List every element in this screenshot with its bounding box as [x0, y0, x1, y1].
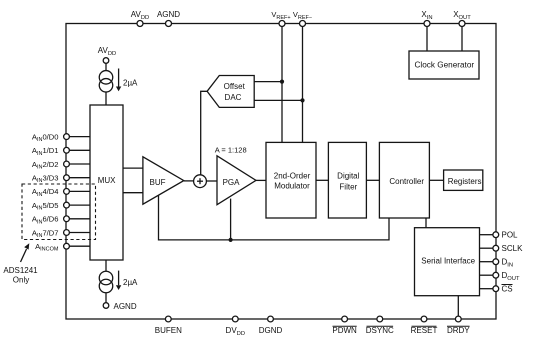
pin AIN3/D3 — [32, 174, 90, 185]
svg-text:AIN6/D6: AIN6/D6 — [32, 215, 59, 226]
pin PDWN (active low) — [332, 316, 357, 335]
wire modulator to digital filter — [316, 179, 328, 181]
wire PGA to modulator — [256, 179, 266, 181]
svg-text:Digital: Digital — [337, 171, 359, 180]
2nd-order modulator block — [266, 142, 316, 218]
svg-text:Serial Interface: Serial Interface — [421, 256, 475, 265]
pin AVDD top — [131, 10, 149, 27]
svg-text:AIN3/D3: AIN3/D3 — [32, 174, 59, 185]
wire MUX to BUF (lower) — [123, 192, 143, 194]
svg-text:AIN5/D5: AIN5/D5 — [32, 201, 59, 212]
pin AIN7/D7 — [32, 228, 90, 239]
svg-text:2nd-Order: 2nd-Order — [274, 171, 311, 180]
current source I1 2uA (top) — [99, 69, 138, 106]
wire BUF to summing junction — [184, 180, 194, 182]
wire X_IN to clock generator — [426, 27, 428, 52]
control branch to PGA — [230, 199, 232, 240]
svg-text:AGND: AGND — [157, 10, 180, 19]
pin RESET (active low) — [411, 316, 438, 335]
pin POL — [480, 231, 519, 240]
svg-text:ADS1241: ADS1241 — [3, 266, 38, 275]
svg-text:Offset: Offset — [224, 82, 246, 91]
current source I2 2uA (bottom) — [99, 260, 138, 303]
svg-text:DVDD: DVDD — [226, 326, 246, 337]
junction dot VREF+ / DAC — [280, 80, 284, 84]
svg-text:Registers: Registers — [448, 177, 482, 186]
svg-text:DAC: DAC — [225, 93, 242, 102]
offset DAC block — [207, 76, 254, 108]
pin DSYNC (active low) — [366, 316, 394, 335]
wire offset DAC output to summing junction — [201, 91, 207, 175]
svg-text:Clock Generator: Clock Generator — [414, 60, 474, 69]
svg-text:AIN1/D1: AIN1/D1 — [32, 146, 59, 157]
wire controller to serial interface — [425, 218, 427, 228]
wire MUX to BUF (upper) — [123, 167, 143, 169]
pin X_OUT — [453, 10, 471, 27]
svg-text:2µA: 2µA — [123, 79, 138, 88]
clock generator block — [409, 51, 479, 79]
svg-text:BUF: BUF — [150, 178, 166, 187]
registers block — [444, 170, 483, 190]
wire controller to registers — [429, 179, 443, 181]
svg-text:PDWN: PDWN — [332, 326, 357, 335]
pin AIN0/D0 — [32, 132, 90, 143]
svg-text:AIN0/D0: AIN0/D0 — [32, 132, 59, 143]
svg-text:A = 1:128: A = 1:128 — [215, 146, 247, 155]
pin X_IN — [421, 10, 432, 27]
wire summing junction to PGA — [206, 180, 217, 182]
svg-text:DRDY: DRDY — [447, 326, 470, 335]
junction dot control/PGA — [229, 238, 233, 242]
svg-text:AIN2/D2: AIN2/D2 — [32, 160, 59, 171]
wire digital filter to controller — [366, 179, 379, 181]
wire VREF- vertical to modulator — [302, 27, 304, 143]
svg-text:PGA: PGA — [223, 178, 241, 187]
buffer amplifier BUF — [143, 157, 184, 204]
pin DVDD — [226, 316, 246, 337]
svg-text:Controller: Controller — [389, 177, 424, 186]
wire offset DAC to VREF- line — [254, 99, 302, 101]
svg-text:VREF+: VREF+ — [271, 10, 290, 21]
controller block — [379, 142, 429, 218]
svg-text:VREF−: VREF− — [293, 10, 312, 21]
svg-text:AGND: AGND — [114, 302, 137, 311]
multiplexer MUX — [90, 105, 123, 260]
pin DGND — [259, 316, 283, 335]
pin CS (active low) — [480, 285, 513, 294]
pin DIN — [480, 258, 514, 269]
svg-text:AVDD: AVDD — [98, 46, 116, 57]
pin DOUT — [480, 271, 520, 282]
outer device boundary box — [66, 24, 496, 320]
svg-text:XOUT: XOUT — [453, 10, 471, 21]
pin AIN6/D6 — [32, 215, 90, 226]
serial interface block — [415, 228, 480, 296]
svg-text:RESET: RESET — [411, 326, 438, 335]
summing junction — [194, 175, 207, 188]
pin AIN1/D1 — [32, 146, 90, 157]
svg-text:XIN: XIN — [421, 10, 432, 21]
svg-text:Filter: Filter — [339, 182, 357, 191]
svg-text:MUX: MUX — [98, 176, 116, 185]
wire X_OUT to clock generator — [461, 27, 463, 52]
ADS1241 Only note with arrow — [3, 243, 38, 284]
pin VREF+ — [271, 10, 290, 27]
svg-text:DSYNC: DSYNC — [366, 326, 394, 335]
svg-text:Only: Only — [13, 276, 29, 285]
svg-text:Modulator: Modulator — [274, 182, 310, 191]
digital filter block — [328, 142, 366, 218]
pin BUFEN — [155, 316, 182, 335]
ADS1241-only dashed group box — [22, 184, 96, 240]
pin AIN5/D5 — [32, 201, 90, 212]
pin AIN2/D2 — [32, 160, 90, 171]
svg-text:DGND: DGND — [259, 326, 283, 335]
pin AINCOM — [35, 242, 90, 253]
svg-text:POL: POL — [502, 231, 519, 240]
pin AIN4/D4 — [32, 187, 90, 198]
AGND internal stub — [103, 302, 137, 311]
pin VREF- — [293, 10, 312, 27]
svg-text:AINCOM: AINCOM — [35, 242, 59, 253]
wire VREF+ vertical to modulator — [281, 27, 283, 143]
svg-text:SCLK: SCLK — [502, 244, 524, 253]
wire offset DAC to VREF+ line — [254, 81, 282, 83]
pin DRDY (active low) — [447, 316, 470, 335]
svg-text:2µA: 2µA — [123, 278, 138, 287]
svg-text:CS: CS — [502, 285, 513, 294]
svg-text:BUFEN: BUFEN — [155, 326, 182, 335]
svg-text:AIN4/D4: AIN4/D4 — [32, 187, 59, 198]
programmable gain amplifier PGA — [217, 156, 256, 205]
pin AGND top — [157, 10, 180, 27]
control line controller to BUF and PGA — [159, 195, 390, 240]
svg-text:AVDD: AVDD — [131, 10, 149, 21]
svg-text:DIN: DIN — [502, 258, 514, 269]
svg-text:DOUT: DOUT — [502, 271, 520, 282]
pin SCLK — [480, 244, 524, 253]
wire serial interface to DRDY pin — [457, 296, 459, 316]
junction dot VREF- / DAC — [300, 98, 304, 102]
AVDD internal supply stub — [98, 46, 116, 71]
svg-text:AIN7/D7: AIN7/D7 — [32, 228, 59, 239]
